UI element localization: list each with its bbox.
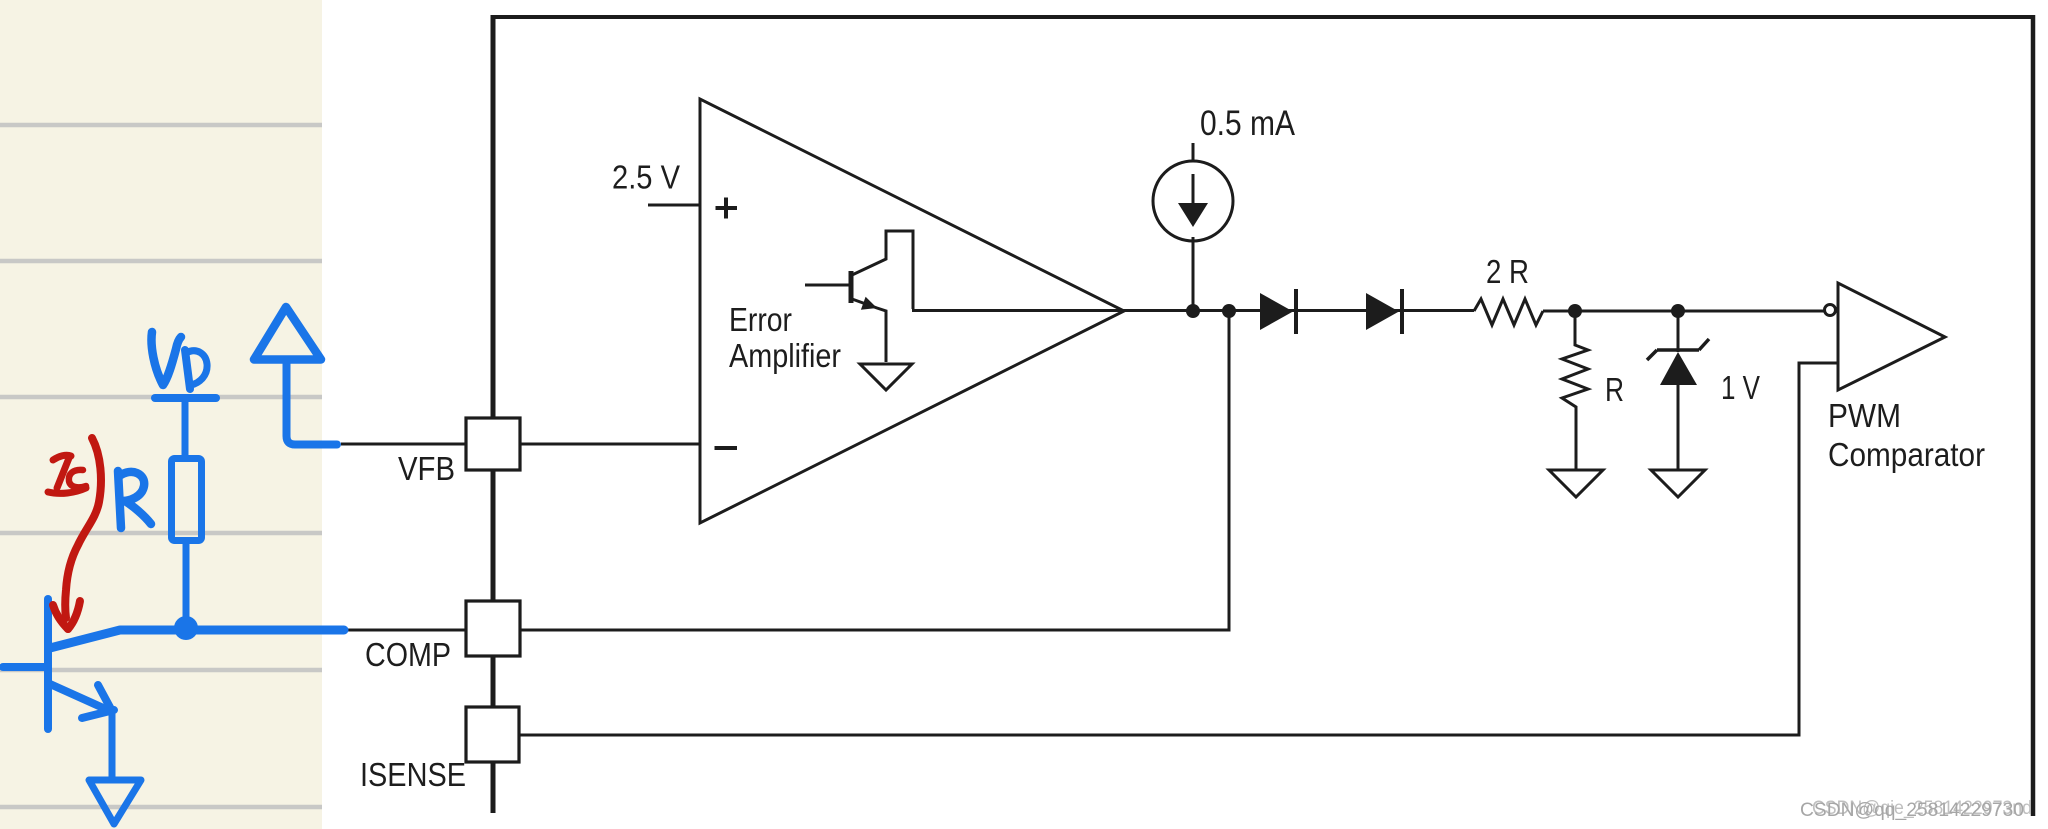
wire VFB pin to error amp inverting input — [341, 443, 700, 446]
pin + non-inverting input marker — [716, 198, 738, 219]
node junction dot at zener — [1671, 304, 1685, 318]
svg-text:Error: Error — [729, 301, 792, 338]
ground symbol below resistor R — [1549, 470, 1603, 497]
inverting input bubble of PWM comparator — [1825, 305, 1836, 316]
watermark text — [1800, 798, 2032, 821]
pin VFB box — [466, 418, 520, 470]
transistor Q1 collector path — [852, 231, 913, 309]
resistor R hand-drawn box — [172, 459, 202, 541]
svg-text:Amplifier: Amplifier — [729, 337, 841, 374]
svg-text:2.5 V: 2.5 V — [612, 159, 680, 196]
svg-text:Comparator: Comparator — [1828, 436, 1985, 473]
op-amp U1 error amplifier triangle — [700, 99, 1124, 523]
IC boundary right border — [2031, 15, 2036, 816]
svg-text:VFB: VFB — [398, 450, 455, 487]
current source I1 arrow — [1192, 174, 1195, 207]
node junction dot hand-drawn — [174, 616, 198, 640]
transistor Q1 base bar — [849, 271, 854, 303]
wire current source to output node — [1192, 237, 1195, 311]
pin COMP box — [466, 601, 520, 656]
diode D2 — [1366, 293, 1399, 330]
svg-text:CSDN@qq_25814229730: CSDN@qq_25814229730 — [1800, 800, 2024, 821]
node junction dot at current source — [1186, 304, 1200, 318]
svg-text:R: R — [1605, 371, 1624, 408]
wire 2.5V reference stub to non-inverting input — [648, 204, 700, 207]
IC boundary left bus line — [491, 15, 496, 813]
resistor 2R horizontal zigzag — [1474, 299, 1543, 325]
node junction dot at resistor R — [1568, 304, 1582, 318]
svg-text:ISENSE: ISENSE — [360, 756, 466, 793]
hand-drawn red arrow Ic into collector — [65, 438, 101, 618]
wire 2R to PWM comparator input — [1543, 310, 1824, 313]
ground symbol below Q1 emitter — [860, 364, 912, 390]
transistor Q1 emitter arrowhead — [861, 297, 877, 310]
transistor Q2 base wire — [3, 663, 48, 671]
svg-text:2 R: 2 R — [1486, 253, 1529, 290]
diode D1 — [1260, 293, 1293, 330]
wire COMP pin to feedback node — [344, 311, 1229, 630]
wire VD bar to resistor R — [182, 401, 189, 458]
svg-text:COMP: COMP — [365, 636, 451, 673]
svg-text:1 V: 1 V — [1721, 369, 1760, 406]
node junction dot at feedback takeoff — [1222, 304, 1236, 318]
IC boundary top border — [491, 15, 2035, 19]
resistor R vertical zigzag — [1562, 311, 1588, 469]
wire collector to node to COMP — [50, 630, 344, 648]
pin ISENSE box — [466, 707, 519, 762]
wire emitter to ground — [109, 711, 116, 779]
transistor Q2 hand-drawn base bar — [44, 599, 52, 729]
hand-drawn blue VD supply bar — [155, 394, 216, 402]
hand-drawn blue supply node VD label — [151, 332, 207, 389]
ground symbol below zener — [1651, 470, 1705, 497]
wire ISENSE pin to PWM comparator input — [519, 363, 1838, 735]
svg-text:PWM: PWM — [1828, 397, 1901, 434]
comparator U2 PWM comparator triangle — [1838, 283, 1945, 390]
hand-drawn blue label R — [118, 471, 151, 528]
hand-drawn blue up arrow to VFB — [254, 307, 321, 360]
zener diode Z1 1V — [1677, 311, 1680, 352]
hand-drawn red label Ic — [48, 455, 86, 493]
wire up arrow elbow to VFB — [287, 361, 338, 445]
ground symbol hand-drawn below emitter — [89, 780, 141, 824]
transistor Q1 inside error amplifier base wire — [805, 284, 850, 287]
transistor Q2 emitter arrowhead — [98, 685, 112, 711]
current source I1 stub above — [1192, 143, 1195, 162]
transistor Q2 emitter — [50, 684, 110, 711]
transistor Q1 emitter path — [852, 299, 886, 362]
wire error amp output line — [912, 309, 1474, 312]
current source I1 circle — [1153, 161, 1233, 241]
pin - inverting input marker — [715, 446, 738, 450]
svg-text:0.5 mA: 0.5 mA — [1200, 103, 1295, 143]
wire resistor R to collector node — [183, 541, 190, 620]
